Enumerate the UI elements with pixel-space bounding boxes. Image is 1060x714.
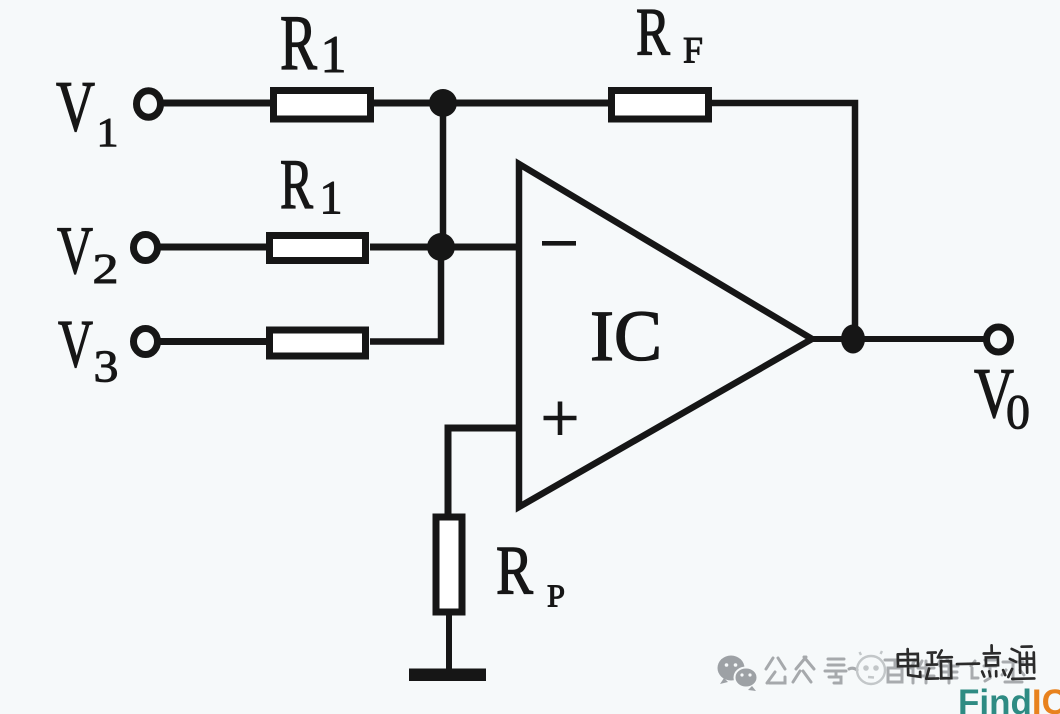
op-amp plus sign (544, 402, 577, 436)
svg-text:3: 3 (94, 341, 119, 392)
wire op-amp non-inverting input to RP (448, 428, 518, 516)
watermark gray text 公众号 (766, 657, 857, 683)
node V2 input terminal (134, 235, 158, 261)
svg-text:P: P (547, 578, 565, 614)
wire node A down to node B (440, 103, 447, 250)
wire R1 (middle) through node B to op-amp inverting input (370, 244, 518, 251)
svg-text:R: R (636, 0, 670, 70)
wire R1 to node A and on to RF (374, 100, 612, 107)
resistor R1 (middle) (270, 236, 366, 261)
svg-text:2: 2 (93, 247, 119, 293)
resistor (bottom, unlabeled) (270, 330, 366, 356)
node V0 output terminal (987, 327, 1011, 352)
junction node C (output) (841, 325, 865, 354)
node V1 input terminal (137, 91, 161, 117)
svg-text:1: 1 (320, 172, 343, 225)
svg-text:R: R (280, 146, 313, 224)
wire RP to ground (446, 612, 452, 672)
watermark dark text 电路一点通 (898, 644, 1035, 681)
svg-text:IC: IC (590, 296, 662, 376)
watermark gray text 硬件笔记本 (885, 659, 1024, 683)
svg-text:V: V (56, 67, 95, 147)
junction node B (427, 233, 455, 261)
svg-text:0: 0 (1006, 384, 1030, 439)
wire op-amp output to node C (808, 336, 990, 342)
svg-text:FindIC: FindIC (958, 683, 1060, 714)
svg-text:F: F (683, 31, 703, 72)
junction node A (429, 89, 457, 117)
op-amp minus sign (542, 241, 576, 246)
watermark avatar circle (857, 651, 885, 684)
wire V2 to R1 (middle) (157, 244, 270, 251)
resistor RF (612, 91, 709, 120)
svg-text:R: R (496, 532, 533, 609)
op-amp IC triangle (519, 164, 812, 507)
svg-text:1: 1 (97, 109, 119, 155)
resistor R1 (top) (274, 91, 371, 120)
wire V3 to resistor (bottom) (157, 338, 270, 345)
svg-text:1: 1 (321, 26, 347, 84)
resistor RP (436, 517, 462, 612)
wire resistor (bottom) up to node B (370, 244, 441, 342)
ground (409, 669, 486, 682)
wire V1 to R1 (159, 100, 274, 107)
svg-text:V: V (57, 212, 93, 288)
watermark wechat icon (718, 656, 758, 692)
node V3 input terminal (134, 329, 158, 355)
svg-text:V: V (58, 306, 93, 382)
wire RF to feedback corner down to output node (712, 103, 855, 339)
svg-text:R: R (280, 0, 317, 86)
